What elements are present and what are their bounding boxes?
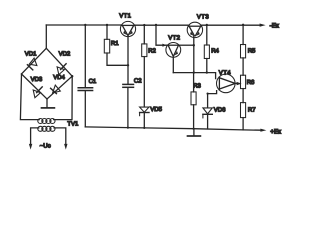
resistor R5 (241, 24, 246, 76)
node: VD6 top junction (207, 93, 209, 95)
ground symbol below bottom rail (193, 129, 195, 136)
svg-text:VT4: VT4 (219, 69, 231, 76)
diode VD1 (27, 58, 37, 70)
wire: top rail drop to bridge top vertex (45, 25, 47, 48)
node: R1/VT1 base junction (127, 64, 129, 66)
svg-text:R5: R5 (248, 47, 256, 54)
wire: top rail middle segment (VT1 emitter to VT3) (136, 24, 189, 26)
svg-text:C2: C2 (134, 78, 142, 85)
wire: top rail output segment after VT3 (201, 24, 261, 26)
svg-text:VD6: VD6 (214, 106, 226, 113)
transistor VT3 (187, 22, 202, 46)
transformer TV1 primary winding (38, 126, 55, 131)
svg-text:+Eк: +Eк (270, 128, 281, 135)
svg-text:~Uс: ~Uс (40, 143, 51, 150)
potentiometer R6 (241, 75, 246, 102)
ground bar (42, 107, 55, 109)
svg-text:VT1: VT1 (119, 13, 131, 20)
resistor R4 (204, 24, 209, 73)
node: R4 bottom junction on driver wire (206, 71, 208, 73)
resistor R3 (191, 73, 196, 129)
diode VD3 (33, 87, 42, 98)
wire: VT1 base down to C2 (127, 65, 129, 84)
capacitor C2 (123, 84, 134, 127)
wire: VT2 collector to VT3 base (180, 44, 194, 46)
svg-text:R2: R2 (148, 48, 156, 55)
wire: VT3 base down through driver node (193, 45, 195, 72)
wire: bridge bottom vertex to ground bar (46, 99, 48, 107)
node: C2 bottom rail junction (127, 127, 129, 129)
svg-text:C1: C1 (89, 78, 97, 85)
wire: bridge edge for VD4 (47, 76, 72, 99)
transformer TV1 secondary winding (38, 119, 55, 124)
arrow: output -Ek top (260, 24, 266, 27)
svg-text:TV1: TV1 (67, 120, 79, 127)
node: VD5 bottom rail junction (143, 127, 145, 129)
svg-text:-Eк: -Eк (270, 23, 279, 30)
wire: driver horizontal wire VT2 base to VT4 collector (173, 73, 215, 79)
svg-text:R7: R7 (248, 107, 256, 114)
wire: bridge edge for VD3 (22, 74, 48, 99)
transistor VT4 (217, 74, 242, 93)
transistor VT2 (166, 43, 181, 73)
resistor R1 (104, 24, 128, 66)
wire: bridge left vertex down to transformer secondary (20, 74, 39, 120)
node: R3 bottom rail junction (193, 128, 195, 130)
wire: bridge edge for VD1 (22, 48, 47, 74)
zener diode VD6 (203, 94, 212, 129)
capacitor C1 (78, 24, 92, 127)
node: VT2 collector / VT3 base junction (193, 44, 195, 46)
svg-text:VD5: VD5 (150, 106, 162, 113)
transistor VT1 (120, 21, 135, 65)
wire: bridge edge for VD2 (46, 48, 72, 76)
svg-text:R6: R6 (247, 79, 255, 86)
wire: VT4 emitter to VD6 (208, 91, 217, 94)
svg-text:VD3: VD3 (31, 76, 43, 83)
svg-text:VD1: VD1 (25, 50, 37, 57)
wire: primary right lead with input arrow (54, 128, 66, 145)
arrow: output +Ek bottom (260, 129, 266, 132)
resistor R2 (142, 24, 147, 107)
wire: VT2 emitter riser to rail (155, 24, 167, 47)
node: bridge right vertex junction dot (71, 75, 73, 77)
svg-text:VD2: VD2 (59, 51, 71, 58)
wire: bridge right vertex down to transformer secondary (54, 76, 73, 119)
wire: primary left lead with input arrow (31, 128, 39, 145)
zener diode VD5 (140, 107, 149, 128)
svg-text:R3: R3 (193, 82, 201, 89)
diode VD2 (57, 64, 66, 75)
node: driver wire junction at R3 line (193, 71, 195, 73)
svg-text:R1: R1 (111, 40, 119, 47)
svg-text:VT2: VT2 (168, 34, 180, 41)
diode VD4 (51, 85, 61, 94)
svg-text:VD4: VD4 (53, 74, 65, 81)
wire: top rail left segment (input) (46, 24, 120, 26)
wire: bottom rail (85, 127, 261, 130)
svg-text:R4: R4 (211, 47, 219, 54)
svg-text:VT3: VT3 (197, 14, 209, 21)
resistor R7 (241, 103, 246, 130)
